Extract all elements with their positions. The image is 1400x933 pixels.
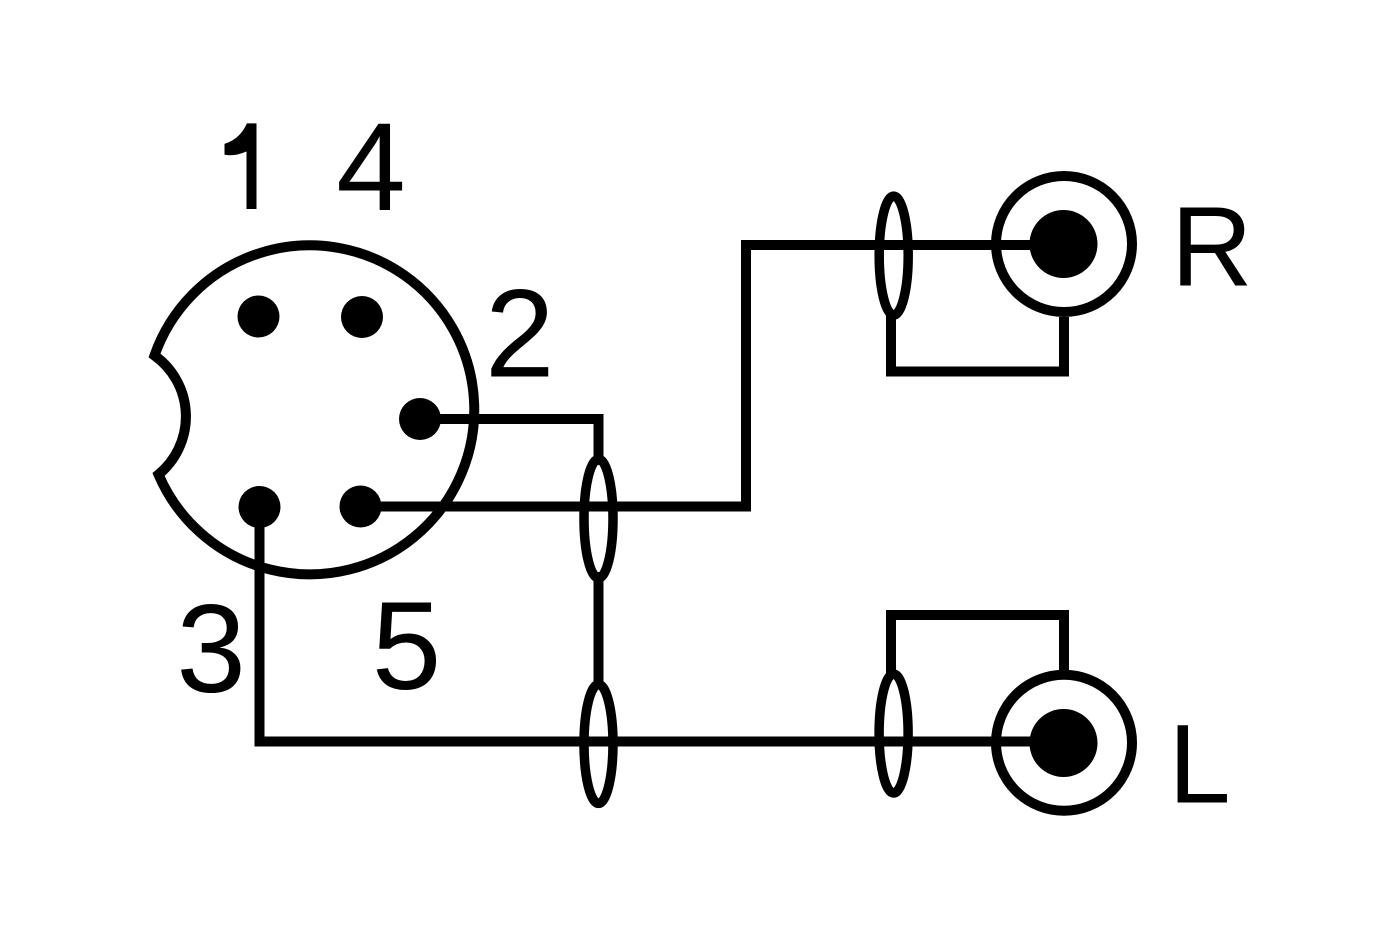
wire: L screen drain to RCA L barrel [891, 615, 1064, 677]
wire: ground between screens e1 and e2 [594, 572, 604, 688]
cable screen e2 [584, 684, 613, 803]
svg-text:2: 2 [485, 265, 555, 404]
pin label 1 [225, 123, 257, 209]
RCA jack R barrel [996, 176, 1132, 312]
RCA jack L center pin [1030, 709, 1098, 777]
pin 2 [399, 398, 441, 440]
wire: pin 3 signal to RCA L [260, 507, 1064, 742]
wire: R screen drain to RCA R barrel [891, 312, 1064, 372]
svg-text:3: 3 [176, 580, 246, 719]
svg-text:R: R [1171, 183, 1253, 309]
svg-text:L: L [1168, 702, 1230, 827]
svg-text:5: 5 [372, 577, 442, 716]
pin 3 [239, 486, 281, 528]
DIN-5 connector body J1 (circle with keyway notch) [155, 245, 475, 574]
pin 4 [341, 296, 383, 338]
svg-text:4: 4 [336, 98, 406, 237]
pin 1 [238, 296, 280, 338]
RCA jack L barrel [996, 675, 1132, 811]
cable screen e3 (R cable) [879, 196, 908, 315]
wire: pin 5 signal to RCA R [361, 245, 1064, 507]
cable screen e4 (L cable) [879, 674, 908, 793]
RCA jack R center pin [1030, 210, 1098, 278]
pin 5 [340, 486, 382, 528]
wire: pin 2 ground to cable screen e1 [420, 419, 599, 465]
cable screen e1 [584, 459, 613, 578]
